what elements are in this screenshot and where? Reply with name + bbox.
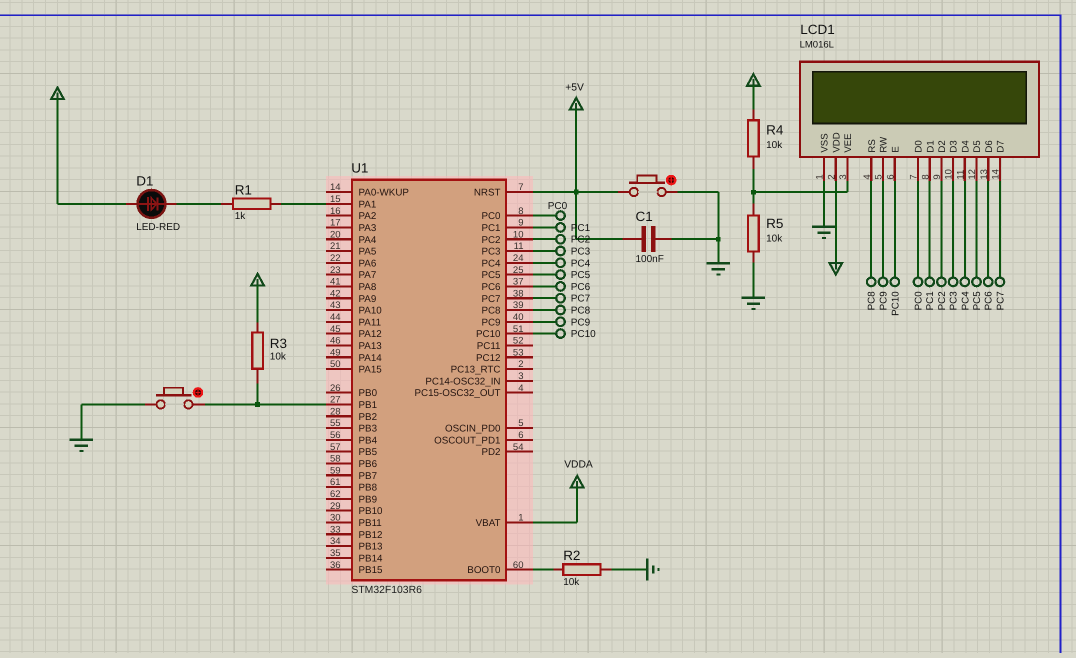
svg-text:PC14-OSC32_IN: PC14-OSC32_IN (425, 376, 500, 387)
svg-text:D7: D7 (996, 140, 1007, 152)
actuator marker of button 1 (reset) (666, 175, 677, 186)
svg-text:100nF: 100nF (636, 254, 664, 265)
lead of R3 (top) (257, 322, 259, 332)
svg-text:PC10: PC10 (890, 291, 901, 316)
terminal PC6 (556, 282, 565, 291)
pin 52 (PC11) of U1 (477, 336, 533, 352)
svg-text:13: 13 (979, 169, 990, 180)
svg-text:PC12: PC12 (476, 353, 501, 364)
wire LCD pin 12 to terminal (976, 181, 978, 278)
svg-text:PA8: PA8 (359, 282, 377, 293)
svg-text:PB12: PB12 (359, 530, 383, 541)
wire U1 to terminal PC7 (533, 297, 557, 299)
wire power arrow to R4 (752, 86, 754, 110)
svg-text:6: 6 (885, 174, 896, 179)
pin of reset button (left) (618, 191, 630, 193)
svg-text:55: 55 (330, 418, 341, 429)
pin 62 (PB9) of U1 (326, 489, 377, 505)
svg-text:PA0-WKUP: PA0-WKUP (359, 188, 410, 199)
wire U1 to terminal PC1 (533, 226, 557, 228)
svg-text:7: 7 (909, 174, 920, 179)
terminal PC7 (LCD side) (996, 278, 1005, 287)
pin 60 (BOOT0) of U1 (467, 560, 533, 576)
wire R4 to junction and R5 (752, 169, 754, 203)
wire LCD pin 14 to terminal (999, 181, 1001, 278)
resistor R1 (233, 183, 270, 223)
svg-text:PC7: PC7 (481, 294, 500, 305)
LED D1 (126, 190, 177, 218)
wire ground to button (81, 404, 145, 439)
svg-text:LED-RED: LED-RED (136, 222, 180, 233)
pin 37 (PC6) of U1 (481, 277, 533, 293)
svg-text:PA1: PA1 (359, 199, 377, 210)
svg-text:8: 8 (920, 174, 931, 179)
svg-text:3: 3 (518, 371, 523, 382)
pin of reset button (right) (666, 191, 678, 193)
svg-text:39: 39 (513, 300, 524, 311)
svg-text:PC5: PC5 (571, 270, 591, 281)
pin 30 (PB11) of U1 (326, 513, 382, 529)
wire R1 to U1 pin 15 (PA1) (281, 203, 326, 205)
svg-text:5: 5 (874, 174, 885, 179)
svg-text:VEE: VEE (843, 133, 854, 152)
svg-text:R5: R5 (766, 216, 783, 231)
pin 49 (PA14) of U1 (326, 347, 382, 363)
svg-text:37: 37 (513, 277, 524, 288)
svg-text:52: 52 (513, 336, 524, 347)
svg-text:4: 4 (518, 383, 523, 394)
svg-text:33: 33 (330, 524, 341, 535)
resistor R5 (748, 215, 783, 251)
svg-text:PA6: PA6 (359, 258, 377, 269)
terminal PC9 (LCD side) (879, 278, 888, 287)
wire R3 to PB0 net (257, 384, 259, 405)
svg-text:PC7: PC7 (571, 294, 591, 305)
svg-text:PA11: PA11 (359, 317, 382, 328)
pin 9 (D2) of LCD1 (932, 140, 948, 181)
pin 14 (PA0-WKUP) of U1 (326, 182, 410, 198)
selection highlight around U1 (326, 176, 533, 584)
svg-text:BOOT0: BOOT0 (467, 565, 501, 576)
svg-text:PC1: PC1 (925, 291, 936, 310)
pin 40 (PC9) of U1 (481, 312, 533, 328)
wire LCD pin 8 to terminal (929, 181, 931, 278)
svg-text:62: 62 (330, 489, 341, 500)
power terminal LCD VDD (830, 263, 843, 275)
wire U1 to terminal PC2 (533, 238, 557, 240)
pin 10 (D3) of LCD1 (944, 140, 960, 181)
svg-text:35: 35 (330, 548, 341, 559)
terminal PC1 (556, 223, 565, 232)
ground R2 (rotated) (rotated) (647, 559, 658, 581)
pin 44 (PA11) of U1 (326, 312, 381, 328)
wire junction to LCD VEE pin 3 (753, 181, 847, 192)
svg-text:53: 53 (513, 347, 524, 358)
svg-text:60: 60 (513, 560, 524, 571)
pin 38 (PC7) of U1 (481, 288, 533, 304)
svg-text:D0: D0 (914, 140, 925, 152)
svg-text:PA7: PA7 (359, 270, 377, 281)
pin 29 (PB10) of U1 (326, 501, 383, 517)
svg-text:10: 10 (513, 229, 524, 240)
pin 8 (PC0) of U1 (481, 206, 533, 222)
svg-text:VDDA: VDDA (564, 459, 593, 470)
ground below R5 (742, 298, 766, 309)
pin 58 (PB6) of U1 (326, 454, 378, 470)
svg-text:PA5: PA5 (359, 247, 377, 258)
svg-text:59: 59 (330, 465, 341, 476)
svg-text:9: 9 (518, 218, 523, 229)
wire +5V to NRST net (575, 109, 577, 192)
pin 39 (PC8) of U1 (481, 300, 533, 316)
wire LCD pin 6 to terminal (894, 181, 896, 278)
svg-text:PC8: PC8 (481, 306, 501, 317)
lead of R4 (bottom) (752, 156, 754, 169)
svg-text:10k: 10k (766, 234, 783, 245)
pin 51 (PC10) of U1 (476, 324, 533, 340)
pin 11 (PC3) of U1 (481, 241, 533, 257)
lead of R3 (bottom) (257, 369, 259, 384)
svg-text:5: 5 (518, 418, 523, 429)
terminal PC0 (556, 211, 565, 220)
svg-text:+5V: +5V (565, 82, 584, 93)
svg-text:PC8: PC8 (571, 306, 591, 317)
svg-text:PA12: PA12 (359, 329, 382, 340)
pin 3 (VEE) of LCD1 (838, 133, 854, 181)
svg-text:34: 34 (330, 536, 341, 547)
wire VDDA to U1 VBAT pin 1 (533, 487, 577, 522)
terminal PC8 (556, 306, 565, 315)
wire LCD pin 4 to terminal (870, 181, 872, 278)
pin 28 (PB2) of U1 (326, 406, 377, 422)
wire U1 to terminal PC4 (533, 262, 557, 264)
svg-text:PB5: PB5 (359, 447, 378, 458)
pin 4 (PC15-OSC32_OUT) of U1 (414, 383, 533, 399)
svg-text:LCD1: LCD1 (800, 22, 835, 37)
wire U1 to terminal PC8 (533, 309, 557, 311)
terminal PC3 (LCD side) (949, 278, 958, 287)
pin 7 (D0) of LCD1 (909, 140, 925, 181)
svg-text:4: 4 (862, 174, 873, 179)
svg-text:C1: C1 (636, 209, 653, 224)
svg-text:46: 46 (330, 336, 341, 347)
svg-text:R4: R4 (766, 123, 784, 138)
terminal PC0 (LCD side) (914, 278, 923, 287)
svg-text:25: 25 (513, 265, 524, 276)
pin 57 (PB5) of U1 (326, 442, 378, 458)
pin 17 (PA3) of U1 (326, 218, 377, 234)
wire LCD pin 7 to terminal (917, 181, 919, 278)
pin 12 (D5) of LCD1 (967, 140, 983, 181)
svg-text:PB8: PB8 (359, 483, 378, 494)
svg-text:11: 11 (514, 241, 524, 252)
pin 10 (PC2) of U1 (481, 229, 533, 245)
svg-text:R2: R2 (563, 548, 580, 563)
svg-text:PC4: PC4 (960, 291, 971, 311)
pin 1 (VBAT) of U1 (476, 513, 533, 529)
LCD screen (813, 72, 1026, 124)
terminal PC3 (556, 247, 565, 256)
wire C1 to ground net (671, 238, 716, 240)
pin 24 (PC4) of U1 (481, 253, 533, 269)
power terminal +V above R4 (747, 74, 760, 86)
svg-text:23: 23 (330, 265, 341, 276)
terminal PC10 (LCD side) (891, 278, 900, 287)
svg-text:49: 49 (330, 347, 341, 358)
svg-text:9: 9 (932, 174, 943, 179)
svg-text:LM016L: LM016L (800, 39, 834, 50)
svg-text:RW: RW (879, 136, 890, 153)
pin 2 (PC13_RTC) of U1 (451, 359, 533, 375)
svg-text:STM32F103R6: STM32F103R6 (351, 585, 422, 596)
pin 3 (PC14-OSC32_IN) of U1 (425, 371, 533, 387)
svg-text:PB2: PB2 (359, 412, 378, 423)
svg-text:42: 42 (330, 288, 341, 299)
svg-text:2: 2 (518, 359, 523, 370)
svg-text:PB13: PB13 (359, 542, 384, 553)
pin 45 (PA12) of U1 (326, 324, 382, 340)
power terminal VDDA (571, 476, 584, 488)
pin 13 (D6) of LCD1 (979, 140, 995, 181)
junction node C1 / ground net (716, 237, 721, 242)
lead of R4 (top) (752, 109, 754, 120)
svg-text:RS: RS (867, 139, 878, 152)
pin of button (left) (145, 403, 157, 405)
lead of R5 (top) (752, 203, 754, 215)
wire U1 to terminal PC0 (533, 215, 557, 217)
terminal PC10 (556, 329, 565, 338)
capacitor C1 (623, 226, 672, 252)
lead of R1 (left) (221, 203, 233, 205)
svg-text:30: 30 (330, 513, 341, 524)
svg-text:D3: D3 (949, 140, 960, 152)
svg-text:10: 10 (944, 169, 955, 180)
wire LCD pin 10 to terminal (952, 181, 954, 278)
svg-text:VSS: VSS (820, 133, 831, 152)
power terminal +V above R3 (251, 274, 264, 286)
svg-text:3: 3 (838, 174, 849, 179)
terminal PC9 (556, 318, 565, 327)
svg-text:28: 28 (330, 406, 341, 417)
terminal PC4 (556, 259, 565, 268)
svg-text:17: 17 (330, 218, 341, 229)
pin 5 (OSCIN_PD0) of U1 (445, 418, 533, 434)
microcontroller U1 STM32F103R6 body (352, 180, 506, 581)
pin 42 (PA9) of U1 (326, 288, 376, 304)
svg-text:OSCIN_PD0: OSCIN_PD0 (445, 424, 501, 435)
svg-text:36: 36 (330, 560, 341, 571)
svg-text:14: 14 (330, 182, 341, 193)
svg-text:10k: 10k (563, 577, 580, 588)
pin 25 (PC5) of U1 (481, 265, 533, 281)
wire R5 to ground (752, 263, 754, 298)
terminal PC8 (LCD side) (867, 278, 876, 287)
pin 56 (PB4) of U1 (326, 430, 378, 446)
pin 15 (PA1) of U1 (326, 194, 376, 210)
push button button 2 (lower-left) (156, 388, 193, 409)
ground reset circuit (707, 263, 731, 274)
resistor R3 (252, 333, 287, 369)
svg-text:24: 24 (513, 253, 524, 264)
wire power arrow to R3 (257, 285, 259, 322)
svg-text:PC10: PC10 (476, 329, 501, 340)
svg-text:PC8: PC8 (867, 291, 878, 311)
wire D1 cathode to R1 (177, 203, 222, 205)
pin 34 (PB13) of U1 (326, 536, 383, 552)
svg-text:PB7: PB7 (359, 471, 378, 482)
svg-text:PB10: PB10 (359, 506, 384, 517)
svg-text:PC9: PC9 (879, 291, 890, 310)
svg-text:1k: 1k (235, 211, 247, 222)
svg-text:PC6: PC6 (984, 291, 995, 311)
wire LCD pin 13 to terminal (987, 181, 989, 278)
svg-text:PC3: PC3 (949, 291, 960, 311)
lead of R2 (left) (553, 569, 563, 571)
svg-text:PA9: PA9 (359, 294, 377, 305)
svg-text:22: 22 (330, 253, 341, 264)
wire LCD VSS to ground (823, 181, 825, 227)
pin 5 (RW) of LCD1 (874, 136, 890, 181)
svg-text:PA2: PA2 (359, 211, 377, 222)
terminal PC4 (LCD side) (961, 278, 970, 287)
svg-text:R3: R3 (270, 336, 287, 351)
pin 36 (PB15) of U1 (326, 560, 383, 576)
svg-text:PB11: PB11 (359, 518, 382, 529)
svg-text:PC3: PC3 (481, 247, 501, 258)
svg-text:20: 20 (330, 229, 341, 240)
pin 4 (RS) of LCD1 (862, 139, 878, 181)
svg-text:29: 29 (330, 501, 341, 512)
svg-text:58: 58 (330, 454, 341, 465)
svg-text:PA10: PA10 (359, 306, 383, 317)
pin 26 (PB0) of U1 (326, 383, 378, 399)
svg-text:PA15: PA15 (359, 365, 383, 376)
svg-text:PC13_RTC: PC13_RTC (451, 365, 501, 376)
lead of R2 (right) (601, 569, 612, 571)
pin 46 (PA13) of U1 (326, 336, 382, 352)
terminal PC6 (LCD side) (984, 278, 993, 287)
wire +5V branch down to C1 (576, 192, 623, 239)
svg-text:1: 1 (815, 174, 826, 179)
svg-text:D1: D1 (136, 173, 153, 188)
junction node R3 / button net (255, 402, 260, 407)
push button button 1 (reset) (629, 175, 666, 196)
svg-text:PB1: PB1 (359, 400, 378, 411)
actuator marker of button 2 (lower-left) (193, 387, 204, 398)
svg-text:D2: D2 (937, 140, 948, 152)
pin 1 (VSS) of LCD1 (815, 133, 831, 181)
terminal PC5 (556, 270, 565, 279)
svg-text:15: 15 (330, 194, 341, 205)
svg-text:8: 8 (518, 206, 523, 217)
junction node NRST / +5V (574, 190, 579, 195)
pin 61 (PB8) of U1 (326, 477, 378, 493)
svg-text:PB3: PB3 (359, 424, 378, 435)
svg-text:61: 61 (330, 477, 341, 488)
svg-text:43: 43 (330, 300, 341, 311)
svg-text:PC0: PC0 (914, 291, 925, 311)
resistor R2 (563, 548, 600, 588)
wire LCD VEE down to junction wire (847, 181, 849, 192)
pin 54 (PD2) of U1 (481, 442, 533, 458)
pin 14 (D7) of LCD1 (991, 140, 1007, 181)
pin 35 (PB14) of U1 (326, 548, 383, 564)
pin 8 (D1) of LCD1 (920, 140, 936, 181)
terminal PC1 (LCD side) (925, 278, 934, 287)
svg-text:PC7: PC7 (995, 291, 1006, 310)
pin 6 (OSCOUT_PD1) of U1 (434, 430, 533, 446)
wire U1 to terminal PC5 (533, 274, 557, 276)
pin 59 (PB7) of U1 (326, 465, 377, 481)
terminal PC2 (LCD side) (937, 278, 946, 287)
wire LCD pin 9 to terminal (940, 181, 942, 278)
pin 9 (PC1) of U1 (481, 218, 533, 234)
svg-text:PA4: PA4 (359, 235, 377, 246)
pin 22 (PA6) of U1 (326, 253, 377, 269)
svg-text:56: 56 (330, 430, 341, 441)
svg-text:R1: R1 (235, 183, 252, 198)
ground LCD VSS (812, 227, 836, 238)
wire R2 to ground (612, 569, 648, 571)
terminal PC2 (556, 235, 565, 244)
svg-text:27: 27 (330, 395, 341, 406)
svg-text:38: 38 (513, 288, 524, 299)
svg-text:VBAT: VBAT (476, 518, 501, 529)
lead of R1 (right) (270, 203, 281, 205)
pin of button (right) (193, 403, 205, 405)
svg-text:PC2: PC2 (937, 291, 948, 310)
svg-text:PC10: PC10 (571, 329, 596, 340)
svg-text:57: 57 (330, 442, 341, 453)
svg-text:D6: D6 (984, 140, 995, 152)
pin 2 (VDD) of LCD1 (826, 132, 842, 181)
wire U1 BOOT0 pin 60 to R2 (533, 569, 553, 571)
svg-text:PC15-OSC32_OUT: PC15-OSC32_OUT (414, 388, 500, 399)
svg-text:U1: U1 (351, 161, 368, 176)
svg-text:1: 1 (518, 513, 523, 524)
svg-text:PC9: PC9 (571, 317, 591, 328)
pin 53 (PC12) of U1 (476, 347, 533, 363)
pin 55 (PB3) of U1 (326, 418, 378, 434)
svg-text:D5: D5 (972, 140, 983, 152)
pin 16 (PA2) of U1 (326, 206, 376, 222)
svg-text:12: 12 (967, 169, 978, 180)
terminal PC5 (LCD side) (972, 278, 981, 287)
power terminal +V (anonymous) top-left (51, 88, 64, 100)
svg-text:OSCOUT_PD1: OSCOUT_PD1 (434, 435, 500, 446)
svg-text:50: 50 (330, 359, 341, 370)
pin 43 (PA10) of U1 (326, 300, 382, 316)
svg-text:PC5: PC5 (972, 291, 983, 311)
svg-text:PC4: PC4 (481, 258, 501, 269)
svg-text:PB4: PB4 (359, 435, 378, 446)
svg-text:54: 54 (513, 442, 524, 453)
svg-text:PC2: PC2 (571, 235, 591, 246)
wire U1 to terminal PC10 (533, 333, 557, 335)
LCD display LCD1 LM016L body (800, 62, 1039, 157)
svg-text:PC0: PC0 (481, 211, 501, 222)
wire LCD pin 11 to terminal (964, 181, 966, 278)
svg-text:6: 6 (518, 430, 523, 441)
svg-text:51: 51 (513, 324, 524, 335)
wire U1 to terminal PC3 (533, 250, 557, 252)
svg-text:45: 45 (330, 324, 341, 335)
svg-text:2: 2 (826, 174, 837, 179)
wire U1 to terminal PC9 (533, 321, 557, 323)
pin 21 (PA5) of U1 (326, 241, 377, 257)
svg-text:NRST: NRST (474, 188, 501, 199)
svg-text:E: E (890, 146, 901, 152)
